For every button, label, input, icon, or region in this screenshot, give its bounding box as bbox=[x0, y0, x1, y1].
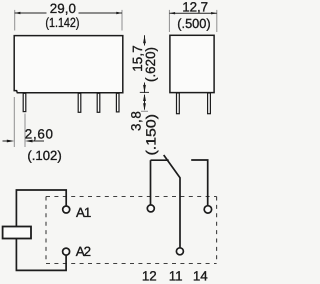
svg-text:3,8: 3,8 bbox=[129, 111, 144, 131]
svg-text:12: 12 bbox=[142, 269, 157, 284]
svg-text:A1: A1 bbox=[76, 205, 91, 220]
svg-text:(.150): (.150) bbox=[144, 114, 159, 156]
svg-text:(.620): (.620) bbox=[143, 47, 158, 82]
svg-text:12,7: 12,7 bbox=[182, 0, 208, 14]
svg-text:14: 14 bbox=[193, 269, 208, 284]
svg-text:11: 11 bbox=[169, 269, 183, 284]
svg-text:29,0: 29,0 bbox=[50, 1, 76, 16]
svg-text:(1.142): (1.142) bbox=[45, 15, 79, 30]
svg-text:(.102): (.102) bbox=[27, 148, 61, 163]
svg-text:A2: A2 bbox=[76, 244, 91, 259]
svg-text:2,60: 2,60 bbox=[25, 127, 53, 142]
svg-text:(.500): (.500) bbox=[177, 16, 210, 31]
